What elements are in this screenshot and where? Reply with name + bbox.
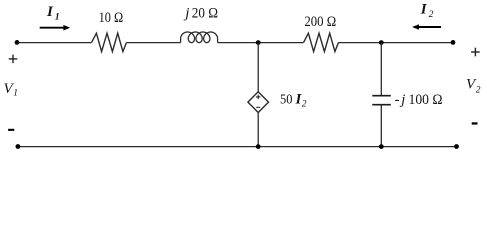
wire: bottom rail <box>18 146 457 148</box>
label port1 plus <box>9 55 18 64</box>
label port2 minus <box>472 122 478 124</box>
wire: between R1 and L1 <box>126 42 180 44</box>
node: bottom junction under capacitor <box>379 144 384 149</box>
node A junction dot <box>256 40 261 45</box>
svg-text:j: j <box>183 5 189 21</box>
node B junction dot <box>379 40 384 45</box>
svg-text:100 Ω: 100 Ω <box>409 92 443 108</box>
node: bottom junction under source <box>256 144 261 149</box>
svg-text:1: 1 <box>55 12 60 22</box>
wire: between L1 and node A <box>218 42 304 44</box>
svg-text:10 Ω: 10 Ω <box>99 10 124 26</box>
capacitor -j100 ohm top plate <box>372 95 391 97</box>
wire: node B down to capacitor <box>380 43 382 96</box>
dependent source plus mark <box>256 95 260 99</box>
svg-text:I: I <box>420 2 428 18</box>
wire: dependent source down to bottom wire <box>257 113 259 147</box>
wire: node A down to dependent source <box>257 43 259 92</box>
dependent source minus mark <box>256 106 260 108</box>
svg-text:50: 50 <box>280 93 292 108</box>
dependent source 50I2 diamond <box>248 92 269 113</box>
node: port2 bottom terminal <box>454 144 459 149</box>
svg-text:I: I <box>46 4 54 20</box>
resistor 200 ohm <box>304 33 339 51</box>
label port2 plus <box>471 48 480 57</box>
svg-text:2: 2 <box>429 10 434 20</box>
svg-text:1: 1 <box>13 89 18 99</box>
wire: capacitor down to bottom wire <box>380 105 382 147</box>
current I1 arrow <box>40 25 70 31</box>
resistor 10 ohm <box>92 33 127 51</box>
svg-text:2: 2 <box>476 86 481 96</box>
label port1 minus <box>8 129 14 131</box>
inductor j20 ohm <box>180 39 182 43</box>
capacitor -j100 ohm bottom plate <box>372 104 391 106</box>
svg-text:j: j <box>399 92 405 108</box>
node: port2 top terminal <box>451 40 456 45</box>
wire: top-left segment from port 1 to R1 <box>17 42 92 44</box>
node: port1 top terminal <box>15 40 20 45</box>
wire: from R2 to top-right port <box>338 42 453 44</box>
node: port1 bottom terminal <box>16 144 21 149</box>
svg-text:2: 2 <box>302 100 307 110</box>
current I2 arrow <box>412 24 441 30</box>
svg-text:200 Ω: 200 Ω <box>304 14 336 30</box>
svg-text:-: - <box>395 92 400 108</box>
svg-text:20 Ω: 20 Ω <box>192 5 218 21</box>
